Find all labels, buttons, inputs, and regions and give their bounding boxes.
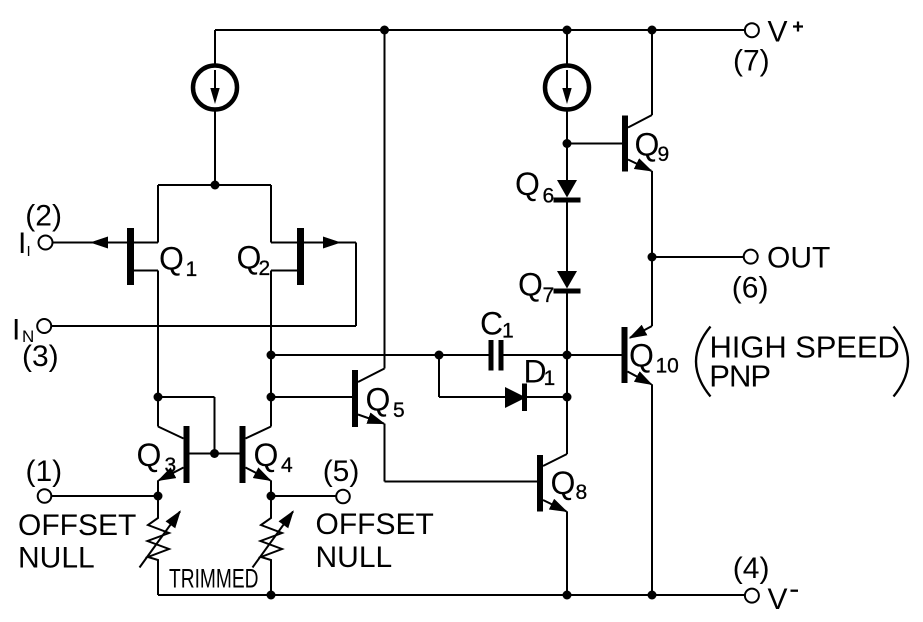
svg-text:OFFSET: OFFSET <box>316 508 434 541</box>
svg-text:Q: Q <box>629 338 654 374</box>
svg-text:Q: Q <box>515 166 540 202</box>
svg-text:NULL: NULL <box>18 542 95 575</box>
svg-text:NULL: NULL <box>316 541 393 574</box>
svg-text:OFFSET: OFFSET <box>18 509 136 542</box>
svg-text:1: 1 <box>544 367 556 390</box>
svg-text:I: I <box>12 314 20 347</box>
svg-text:Q: Q <box>635 127 660 163</box>
svg-text:Q: Q <box>254 437 279 473</box>
svg-text:(5): (5) <box>323 455 360 488</box>
svg-text:7: 7 <box>543 284 555 307</box>
svg-text:(4): (4) <box>733 552 770 585</box>
svg-text:Q: Q <box>518 267 543 303</box>
svg-text:(6): (6) <box>732 272 769 305</box>
svg-text:8: 8 <box>576 481 588 504</box>
svg-text:1: 1 <box>186 258 198 281</box>
svg-text:OUT: OUT <box>767 242 830 275</box>
svg-text:2: 2 <box>259 257 271 280</box>
svg-text:C: C <box>480 306 503 342</box>
svg-text:Q: Q <box>366 382 391 418</box>
svg-text:V: V <box>768 583 788 616</box>
svg-text:PNP: PNP <box>709 359 770 394</box>
svg-text:TRIMMED: TRIMMED <box>169 564 259 594</box>
svg-text:5: 5 <box>393 399 405 422</box>
svg-text:6: 6 <box>543 185 555 208</box>
svg-text:1: 1 <box>502 320 514 343</box>
svg-text:Q: Q <box>137 437 162 473</box>
svg-text:3: 3 <box>165 454 177 477</box>
svg-text:9: 9 <box>658 143 670 166</box>
svg-text:I: I <box>18 227 26 260</box>
svg-text:(2): (2) <box>25 200 62 233</box>
svg-text:N: N <box>22 327 34 346</box>
svg-text:10: 10 <box>656 355 679 378</box>
svg-text:4: 4 <box>281 454 293 477</box>
svg-text:Q: Q <box>159 241 184 277</box>
svg-text:Q: Q <box>551 465 576 501</box>
svg-text:I: I <box>27 243 31 260</box>
svg-text:(7): (7) <box>733 45 770 78</box>
svg-text:(1): (1) <box>26 455 63 488</box>
svg-text:V: V <box>768 16 788 49</box>
